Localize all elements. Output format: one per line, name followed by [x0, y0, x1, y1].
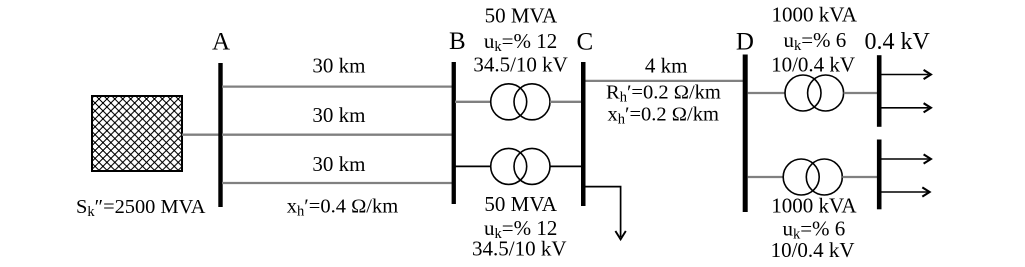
wire D to transformer T3 (left) [748, 92, 786, 94]
svg-text:Sk″=2500 MVA: Sk″=2500 MVA [76, 196, 206, 220]
svg-text:30 km: 30 km [312, 54, 365, 78]
wire transformer T3 to 0.4kV busbar E1 [844, 92, 877, 94]
svg-text:C: C [577, 28, 594, 55]
svg-text:1000 kVA: 1000 kVA [772, 3, 858, 27]
busbar C [581, 62, 586, 206]
svg-text:4 km: 4 km [645, 53, 688, 77]
wire transformer T1 to C (right) [550, 101, 584, 103]
svg-text:10/0.4 kV: 10/0.4 kV [771, 238, 855, 262]
svg-text:xh′=0.4 Ω/km: xh′=0.4 Ω/km [287, 195, 398, 219]
svg-text:1000 kVA: 1000 kVA [771, 194, 857, 218]
wire C-D (4 km cable) [586, 80, 744, 82]
busbar A [218, 63, 222, 207]
svg-text:D: D [736, 29, 754, 56]
load arrow 2 from E2 [882, 187, 930, 196]
wire line 1 A-B (30 km) [222, 85, 452, 87]
transformer T4 (1000 kVA, lower D-0.4kV) [783, 159, 842, 195]
svg-text:A: A [212, 28, 230, 55]
svg-text:10/0.4 kV: 10/0.4 kV [771, 53, 855, 77]
wire B to transformer T2 (left) [455, 165, 491, 167]
svg-text:50 MVA: 50 MVA [485, 3, 558, 27]
wire transformer T2 to C (right) [550, 165, 584, 167]
svg-text:30 km: 30 km [312, 152, 365, 176]
busbar B [452, 62, 456, 204]
busbar D [743, 55, 748, 213]
svg-text:50 MVA: 50 MVA [484, 192, 557, 216]
svg-text:B: B [449, 28, 466, 55]
svg-text:xh′=0.2 Ω/km: xh′=0.2 Ω/km [608, 103, 719, 127]
wire line 3 A-B (30 km) [222, 182, 452, 184]
svg-text:34.5/10 kV: 34.5/10 kV [473, 53, 568, 77]
wire D to transformer T4 (left) [748, 176, 784, 178]
transformer T1 (50 MVA, upper B-C) [491, 84, 550, 120]
load arrow 1 from E2 [882, 154, 931, 163]
wire transformer T4 to 0.4kV busbar E2 [842, 176, 877, 178]
source S (network feeder, crosshatched block) [92, 96, 182, 171]
load arrow 1 from E1 [882, 70, 931, 79]
load arrow at C (down) [615, 231, 625, 239]
svg-text:0.4 kV: 0.4 kV [865, 29, 931, 55]
wire B to transformer T1 (left) [455, 101, 491, 103]
transformer T3 (1000 kVA, upper D-0.4kV) [785, 75, 844, 111]
transformer T2 (50 MVA, lower B-C) [491, 148, 550, 184]
svg-text:uk=% 6: uk=% 6 [783, 28, 846, 54]
load arrow 2 from E1 [882, 103, 931, 112]
svg-text:34.5/10 kV: 34.5/10 kV [472, 237, 567, 261]
wire line 2 A-B (30 km) [222, 134, 452, 136]
wire C load tap [586, 187, 621, 237]
svg-text:30 km: 30 km [312, 103, 365, 127]
busbar E1 (0.4 kV upper) [877, 55, 882, 127]
wire source to busbar A [182, 134, 219, 136]
busbar E2 (0.4 kV lower) [877, 140, 882, 210]
